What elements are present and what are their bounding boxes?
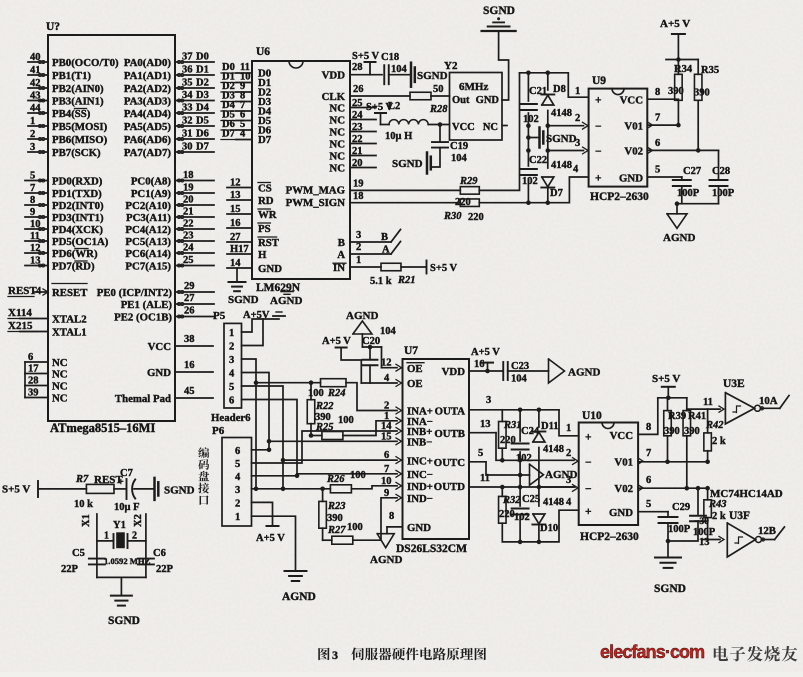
svg-text:PC5(A13): PC5(A13) (125, 236, 171, 248)
svg-text:PD1(TXD): PD1(TXD) (52, 188, 102, 200)
svg-text:X2: X2 (133, 514, 144, 527)
svg-text:31: 31 (182, 129, 193, 140)
svg-text:104: 104 (380, 326, 397, 337)
svg-text:220: 220 (468, 212, 484, 223)
svg-text:PE2 (OC1B): PE2 (OC1B) (114, 312, 172, 324)
svg-text:29: 29 (184, 281, 195, 292)
svg-text:D0: D0 (196, 52, 209, 63)
svg-text:4: 4 (235, 472, 241, 483)
svg-text:PC7(A15): PC7(A15) (125, 261, 171, 273)
svg-text:RD: RD (258, 195, 274, 207)
svg-text:22: 22 (352, 134, 363, 145)
svg-text:PD4(XCK): PD4(XCK) (52, 224, 103, 236)
capacitor C21 102 (520, 103, 537, 105)
wire P5 pin3 down (242, 359, 257, 489)
wire C19 to SGND (431, 148, 440, 167)
capacitor C22 102 (520, 168, 537, 170)
svg-text:9: 9 (384, 488, 389, 499)
svg-text:+: + (585, 506, 592, 518)
wire top rail to U9 pin1 (520, 73, 589, 97)
svg-text:37: 37 (182, 52, 193, 63)
U9 pin8 VCC wire to A+5V rail (647, 98, 678, 100)
svg-text:25: 25 (352, 98, 363, 109)
ground AGND below U6 (281, 291, 293, 293)
svg-text:SGND: SGND (228, 294, 259, 306)
svg-text:SGND: SGND (108, 615, 140, 627)
svg-text:D7: D7 (258, 134, 272, 146)
svg-text:1: 1 (235, 512, 240, 523)
left rail vertical C24/C25 (519, 410, 521, 441)
wire P6 pin3 to R26 (252, 488, 331, 490)
svg-text:5: 5 (229, 382, 234, 393)
svg-text:WR: WR (258, 209, 277, 221)
bottom wire crystal loop to SGND (97, 576, 146, 578)
diode D10 4148 (532, 524, 545, 526)
svg-text:2: 2 (235, 498, 240, 509)
svg-text:PB2(AIN0): PB2(AIN0) (52, 83, 104, 95)
svg-text:AGND: AGND (568, 367, 600, 379)
svg-text:OUTA: OUTA (435, 406, 466, 418)
capacitor C27 100P (681, 177, 683, 180)
svg-text:elecfans·com: elecfans·com (600, 642, 704, 662)
svg-text:Y2: Y2 (444, 60, 458, 72)
resistor R31 220 (499, 422, 507, 449)
svg-text:3: 3 (235, 485, 240, 496)
wire P6 pin1 to AGND (252, 516, 296, 570)
svg-text:NC: NC (329, 150, 345, 162)
svg-text:V01: V01 (614, 457, 633, 469)
svg-text:12B: 12B (758, 525, 776, 537)
wire to U10 pin2 (520, 459, 574, 461)
wire OUTA to R31 (501, 410, 503, 422)
svg-text:1: 1 (575, 86, 580, 97)
svg-text:INC+: INC+ (407, 455, 433, 467)
svg-text:C25: C25 (522, 494, 540, 505)
svg-text:100P: 100P (712, 188, 735, 199)
svg-text:4: 4 (240, 129, 246, 140)
svg-text:38: 38 (184, 334, 195, 345)
svg-text:NC: NC (52, 393, 68, 405)
svg-text:NC: NC (483, 122, 498, 133)
svg-text:24: 24 (183, 243, 194, 254)
wire to U7 INC- (297, 473, 397, 475)
capacitor C23 104 (502, 362, 504, 380)
svg-text:−: − (595, 121, 602, 133)
svg-text:C22: C22 (529, 155, 547, 166)
svg-text:S+5 V: S+5 V (2, 484, 30, 496)
junction node L2/C19/Y2-VCC (438, 122, 443, 127)
svg-text:IND+: IND+ (407, 481, 433, 493)
capacitor C30 100P (697, 488, 699, 514)
caption figure 3 (Chinese) (318, 648, 329, 661)
U7 pin11 OUTD wire (469, 486, 575, 488)
svg-text:P6: P6 (212, 425, 225, 437)
wire P5 pin4 down (242, 373, 270, 450)
svg-text:22P: 22P (61, 564, 79, 575)
svg-text:5.1 k: 5.1 k (370, 276, 392, 287)
junction dots on U10 rails (518, 458, 523, 463)
IC U? ATmega8515-16MI body (48, 35, 175, 421)
svg-text:3: 3 (356, 230, 361, 241)
svg-text:GND: GND (147, 367, 171, 379)
svg-text:PA0(AD0): PA0(AD0) (124, 57, 172, 69)
svg-text:U?: U? (46, 21, 60, 33)
svg-text:D7: D7 (550, 188, 563, 199)
svg-text:PE1 (ALE): PE1 (ALE) (121, 299, 173, 311)
capacitor C25 102 (512, 508, 529, 510)
svg-text:VCC: VCC (148, 341, 171, 353)
svg-text:PC2(A10): PC2(A10) (125, 200, 171, 212)
capacitor C28 100P (710, 179, 728, 181)
ground SGND above Y2 (482, 30, 516, 32)
wire P5 pin6 down (242, 400, 298, 476)
svg-text:VCC: VCC (452, 122, 475, 133)
wire down to U7 pin12 (381, 347, 383, 368)
wire R42 bottom to V01 row (707, 451, 709, 462)
svg-text:PS: PS (258, 223, 271, 235)
svg-text:10μ H: 10μ H (385, 131, 412, 142)
svg-text:R23: R23 (327, 501, 346, 512)
svg-text:23: 23 (183, 231, 194, 242)
U9 pin7 V01 wire (648, 122, 653, 128)
wire P6 pin2 to A+5V tap (252, 502, 273, 526)
svg-text:U3E: U3E (723, 378, 745, 390)
svg-text:10A: 10A (759, 395, 778, 407)
svg-text:100P: 100P (668, 524, 691, 535)
svg-text:NC: NC (52, 381, 68, 393)
svg-text:PC3(A11): PC3(A11) (126, 212, 171, 224)
U10 pin8 VCC wire to S+5V (638, 398, 658, 435)
svg-text:D1: D1 (196, 65, 209, 76)
svg-text:100: 100 (350, 470, 366, 481)
svg-text:D10: D10 (540, 523, 558, 534)
svg-text:INC−: INC− (407, 469, 433, 481)
svg-text:X114: X114 (8, 307, 32, 319)
U7 pin3 OUTA wire to top rail (469, 409, 559, 411)
svg-text:8: 8 (655, 87, 660, 98)
svg-text:ATmega8515–16MI: ATmega8515–16MI (50, 421, 155, 435)
svg-text:3: 3 (229, 355, 234, 366)
wire to U7 INC+ (283, 459, 397, 461)
svg-text:2: 2 (229, 341, 234, 352)
svg-text:PD6(WR): PD6(WR) (52, 248, 98, 260)
svg-text:18: 18 (353, 191, 364, 202)
ground AGND right of C23 (549, 359, 565, 383)
svg-text:OUTB: OUTB (434, 428, 465, 440)
svg-text:VDD: VDD (442, 366, 466, 378)
svg-text:D5: D5 (196, 116, 209, 127)
svg-text:PA5(AD5): PA5(AD5) (124, 121, 172, 133)
svg-text:4148: 4148 (543, 497, 564, 508)
svg-text:36: 36 (182, 65, 193, 76)
svg-text:X215: X215 (8, 320, 33, 332)
svg-text:R34: R34 (674, 64, 693, 75)
svg-text:35: 35 (182, 78, 193, 89)
svg-text:−: − (595, 146, 602, 158)
svg-text:7: 7 (655, 113, 660, 124)
svg-text:6: 6 (229, 395, 234, 406)
U7 pin12 OE wire (382, 367, 398, 369)
svg-text:102: 102 (516, 453, 532, 464)
svg-text:OE: OE (407, 378, 423, 390)
svg-text:NC: NC (329, 162, 345, 174)
junction dots on rails (526, 71, 531, 76)
svg-text:D2: D2 (196, 78, 209, 89)
svg-text:S+5 V: S+5 V (652, 373, 680, 385)
svg-text:D7: D7 (196, 142, 209, 153)
svg-text:4148: 4148 (543, 444, 564, 455)
svg-text:VCC: VCC (620, 95, 643, 107)
diode D7 4148 (541, 187, 554, 189)
ground SGND right of C18 (410, 63, 413, 87)
svg-text:D3: D3 (196, 90, 209, 101)
svg-text:R35: R35 (701, 65, 719, 76)
svg-text:100: 100 (338, 415, 354, 426)
ground SGND right of C7 (153, 478, 156, 500)
svg-text:GND: GND (258, 263, 282, 275)
svg-text:+: + (118, 477, 124, 488)
svg-text:PC4(A12): PC4(A12) (125, 224, 171, 236)
svg-text:D6: D6 (196, 129, 209, 140)
svg-text:+: + (595, 173, 602, 185)
svg-text:6MHz: 6MHz (459, 81, 488, 93)
svg-text:PB6(MISO): PB6(MISO) (52, 134, 108, 146)
U7 pin8 GND wire to AGND (387, 526, 403, 528)
svg-text:6: 6 (384, 450, 389, 461)
svg-text:PE0 (ICP/INT2): PE0 (ICP/INT2) (97, 287, 173, 299)
svg-text:R26: R26 (326, 474, 345, 485)
NC pins chain verticals (24, 362, 26, 374)
Y2 NC stub (502, 125, 507, 127)
svg-text:102: 102 (514, 512, 530, 523)
svg-text:+: + (595, 95, 602, 107)
svg-text:100P: 100P (677, 188, 700, 199)
U9 pin5 GND wire (647, 176, 682, 178)
svg-text:1: 1 (566, 423, 571, 434)
resistor R29 220 (460, 187, 479, 195)
label encoder interface (Chinese) vertical (198, 447, 209, 505)
capacitor C19 104 (439, 125, 441, 142)
svg-text:R30: R30 (443, 211, 462, 222)
svg-text:A: A (337, 249, 345, 261)
svg-text:GND: GND (476, 95, 500, 106)
wire R24 to U7 INA+ (346, 383, 397, 411)
U10 pin5 GND wire (638, 511, 668, 513)
svg-text:4: 4 (566, 497, 572, 508)
svg-text:U6: U6 (256, 46, 270, 58)
svg-text:C28: C28 (712, 166, 730, 177)
wire V02 down to C28 (718, 150, 720, 179)
svg-text:6: 6 (646, 475, 651, 486)
IC U7 DS26LS32CM body (403, 359, 470, 539)
svg-text:OUTC: OUTC (434, 457, 465, 469)
svg-text:V01: V01 (624, 121, 643, 133)
svg-text:IND−: IND− (407, 493, 433, 505)
svg-text:AGND: AGND (270, 295, 302, 307)
svg-text:NC: NC (329, 138, 345, 150)
svg-text:16: 16 (184, 360, 195, 371)
svg-text:XTAL2: XTAL2 (52, 314, 87, 326)
svg-text:PB4(SS): PB4(SS) (52, 108, 91, 120)
svg-text:32: 32 (182, 116, 193, 127)
svg-text:13: 13 (699, 537, 710, 548)
svg-text:RESET: RESET (52, 287, 88, 299)
svg-text:PD0(RXD): PD0(RXD) (52, 176, 103, 188)
svg-text:D11: D11 (541, 421, 559, 432)
svg-text:Themal Pad: Themal Pad (115, 393, 171, 405)
svg-text:23: 23 (352, 122, 363, 133)
svg-text:C6: C6 (153, 548, 166, 559)
svg-text:X1: X1 (81, 514, 92, 527)
svg-text:CLK: CLK (322, 91, 346, 103)
connector P5 Header6 body (224, 323, 242, 408)
svg-text:18: 18 (183, 170, 194, 181)
svg-text:C27: C27 (683, 166, 701, 177)
svg-text:PA3(AD3): PA3(AD3) (124, 96, 172, 108)
svg-text:PD5(OC1A): PD5(OC1A) (52, 236, 109, 248)
svg-text:PC1(A9): PC1(A9) (131, 188, 172, 200)
ground SGND below C29 (655, 557, 681, 559)
svg-text:OE: OE (407, 363, 423, 375)
svg-text:PB3(AIN1): PB3(AIN1) (52, 96, 104, 108)
svg-text:D7: D7 (222, 129, 235, 140)
svg-text:SGND: SGND (164, 485, 195, 497)
svg-text:3: 3 (575, 138, 580, 149)
svg-text:2 k: 2 k (712, 511, 726, 522)
wire Y2 GND up to SGND (499, 32, 509, 100)
svg-text:V02: V02 (614, 483, 633, 495)
svg-text:XTAL1: XTAL1 (52, 327, 87, 339)
svg-text:D4: D4 (196, 103, 210, 114)
svg-text:104: 104 (391, 64, 408, 75)
svg-text:Y1: Y1 (113, 520, 126, 531)
wire R25 to U7 INA- (343, 421, 397, 436)
resistor R23 390 vertical (322, 489, 324, 502)
capacitor C5 22P (89, 558, 105, 560)
svg-text:7: 7 (646, 448, 651, 459)
svg-text:100: 100 (347, 522, 363, 533)
svg-text:PA6(AD6): PA6(AD6) (124, 134, 172, 146)
svg-text:390: 390 (664, 426, 680, 437)
svg-text:10: 10 (381, 476, 392, 487)
U3E input wire pin 11 (687, 408, 720, 410)
resistor R22 390 vertical (310, 383, 312, 400)
svg-text:U7: U7 (404, 345, 418, 357)
svg-text:2 k: 2 k (712, 436, 726, 447)
svg-text:6: 6 (655, 138, 660, 149)
svg-text:NC: NC (52, 357, 68, 369)
wire P6 pin6 (252, 449, 270, 451)
wire R26 to U7 IND+ (351, 486, 397, 489)
capacitor C24 102 (512, 443, 529, 445)
svg-text:R41: R41 (688, 411, 706, 422)
svg-text:AGND: AGND (545, 469, 577, 481)
svg-text:NC: NC (52, 369, 68, 381)
svg-text:U3F: U3F (729, 510, 750, 522)
svg-text:28: 28 (352, 62, 363, 73)
svg-text:22P: 22P (156, 564, 174, 575)
wire U6 GND to ground (236, 268, 238, 281)
svg-text:R24: R24 (327, 388, 346, 399)
svg-text:−: − (585, 484, 592, 496)
svg-text:CS: CS (258, 183, 272, 195)
right rail vertical D11/D10 (538, 410, 540, 427)
svg-text:R7: R7 (75, 474, 89, 485)
resistor R39 390 (667, 398, 669, 411)
svg-text:S+5 V: S+5 V (352, 51, 380, 62)
power tap S+5V at U6 VDD (369, 62, 371, 75)
svg-text:3: 3 (486, 395, 491, 406)
svg-text:Header6: Header6 (211, 412, 251, 424)
svg-text:C29: C29 (672, 502, 690, 513)
wire R39 to V01 row (667, 436, 669, 462)
svg-text:RST: RST (258, 237, 280, 249)
wire P5 pin5 down (242, 386, 284, 489)
svg-text:B: B (381, 232, 388, 243)
svg-text:24: 24 (352, 110, 363, 121)
svg-text:AGND: AGND (282, 591, 316, 603)
svg-text:U9: U9 (592, 75, 606, 87)
U7 pin13 OUTB wire (469, 432, 496, 434)
svg-text:10 k: 10 k (74, 499, 93, 510)
left rail vertical C21/C22 (527, 73, 529, 101)
wire R29 to top rail (479, 73, 519, 191)
wire R34 to V01 (677, 100, 679, 125)
svg-text:390: 390 (668, 86, 684, 97)
U7 pin4 OE wire (361, 382, 397, 384)
svg-text:HCP2–2630: HCP2–2630 (580, 531, 639, 543)
svg-text:PD2(INT0): PD2(INT0) (52, 200, 104, 212)
svg-text:390: 390 (694, 88, 710, 99)
wire L2 to Y2 VCC (428, 124, 449, 126)
svg-text:5: 5 (478, 448, 483, 459)
resistor R28 50 (410, 92, 431, 100)
svg-text:NC: NC (329, 102, 345, 114)
svg-text:21: 21 (352, 146, 363, 157)
svg-text:PA1(AD1): PA1(AD1) (124, 70, 172, 82)
wire OUTB jog to pin2 row (496, 433, 520, 461)
svg-text:PD7(RD): PD7(RD) (52, 261, 95, 273)
svg-text:5: 5 (655, 165, 660, 176)
svg-text:VDD: VDD (322, 70, 346, 82)
svg-text:6: 6 (235, 446, 240, 457)
svg-text:8: 8 (646, 422, 651, 433)
svg-text:33: 33 (182, 103, 193, 114)
svg-text:2: 2 (132, 531, 137, 542)
wire to U9 pin3 (548, 150, 584, 152)
resistor R35 390 (697, 60, 699, 75)
wire P5 pin1 to A+5V (242, 319, 280, 332)
svg-text:GND: GND (407, 522, 431, 534)
svg-text:B: B (338, 237, 345, 249)
capacitor C6 22P (138, 558, 154, 560)
ground AGND triangle top right (676, 204, 678, 214)
wire to U10 pin3 (539, 486, 574, 488)
svg-text:1: 1 (104, 531, 109, 542)
wire R35 to V02 (697, 100, 699, 150)
svg-text:GND: GND (619, 173, 643, 185)
svg-text:7: 7 (384, 464, 389, 475)
svg-text:R32: R32 (502, 495, 521, 506)
svg-text:DS26LS32CM: DS26LS32CM (396, 543, 467, 555)
svg-text:P5: P5 (213, 310, 226, 322)
svg-text:SGND: SGND (654, 583, 686, 595)
U10 pin6 V02 wire (639, 485, 644, 491)
U7 pin5 OUTC wire (469, 461, 486, 463)
svg-text:PB5(MOSI): PB5(MOSI) (52, 121, 108, 133)
svg-text:15: 15 (381, 431, 392, 442)
svg-text:10μ F: 10μ F (114, 502, 140, 513)
